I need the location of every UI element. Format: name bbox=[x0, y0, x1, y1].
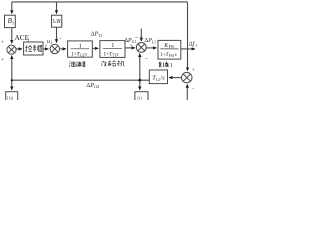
wire branch up from tie-line into SJ1 bbox=[11, 56, 13, 81]
wire 1/R1 down to SJ2a bbox=[56, 27, 58, 42]
summing junction SJ1 bbox=[7, 45, 16, 54]
wire SJ2a to governor bbox=[60, 48, 66, 50]
wire turbine to summing junction SJ2 bbox=[125, 47, 135, 49]
svg-text:+: + bbox=[130, 44, 133, 49]
wire SJ2 to power system block KPS1 bbox=[146, 47, 156, 49]
svg-text:1: 1 bbox=[195, 43, 197, 48]
svg-text:1: 1 bbox=[50, 40, 52, 45]
svg-text:+: + bbox=[1, 39, 4, 45]
label governor (tiao su qi) bbox=[69, 61, 85, 66]
wire drop into 1/R1 bbox=[56, 2, 58, 14]
summing junction SJ3 bbox=[182, 72, 192, 82]
summing junction SJ2 bbox=[136, 43, 146, 53]
svg-text:1: 1 bbox=[12, 20, 14, 25]
svg-text:L1: L1 bbox=[152, 40, 156, 44]
node junction dot on tie-line at x=12 bbox=[11, 79, 13, 81]
char 制 bbox=[33, 45, 38, 52]
char 器 bbox=[40, 45, 42, 51]
block bottom-left (area 2, clipped) bbox=[6, 92, 18, 103]
char 汽 bbox=[101, 61, 106, 66]
char 调 bbox=[69, 62, 75, 67]
wire df1 down to summing junction SJ3 bbox=[187, 49, 189, 71]
block 1/R1 bbox=[52, 15, 63, 27]
wire branch down from tie-line into bottom-right block bbox=[139, 80, 141, 90]
svg-text:1: 1 bbox=[79, 42, 82, 49]
svg-text:s: s bbox=[175, 52, 177, 58]
char 器 bbox=[83, 62, 85, 67]
block bottom-right (area 2, clipped) bbox=[135, 92, 148, 103]
wire tie-line dPtie from T12/s to left bbox=[12, 79, 150, 81]
block B1 bbox=[5, 15, 16, 27]
wire load input dP_L1 into SJ2 bbox=[140, 29, 142, 42]
wire KPS1 output df1 bbox=[181, 48, 195, 50]
svg-text:12: 12 bbox=[156, 77, 160, 82]
char 控 bbox=[25, 45, 32, 52]
char 区 bbox=[159, 62, 161, 67]
svg-text:+: + bbox=[1, 57, 4, 63]
svg-text:−: − bbox=[191, 86, 195, 92]
wire controller to summing junction SJ2a bbox=[43, 48, 48, 50]
node junction dot on tie-line at x=140 bbox=[138, 79, 141, 82]
wire drop into B1 bbox=[11, 2, 13, 14]
wire governor to turbine bbox=[92, 47, 98, 49]
wire df1 riser up to top feedback line bbox=[187, 2, 189, 49]
svg-text:T1: T1 bbox=[98, 34, 102, 38]
svg-text:+: + bbox=[192, 67, 195, 73]
block turbine transfer function bbox=[100, 41, 125, 58]
wire B1 to summing junction SJ1 (ACE1) bbox=[11, 28, 13, 44]
wire top feedback line bbox=[12, 1, 188, 3]
svg-text:s: s bbox=[116, 51, 118, 57]
wire area-2 df2 input from bottom into SJ3 bbox=[186, 84, 188, 100]
block governor transfer function bbox=[68, 41, 93, 58]
char 轮 bbox=[108, 61, 115, 66]
svg-text:s: s bbox=[85, 51, 87, 57]
block T12/s bbox=[149, 70, 167, 84]
wire SJ3 to T12/s block bbox=[169, 77, 182, 79]
svg-text:1: 1 bbox=[111, 42, 114, 49]
label turbine (qi lun ji) bbox=[101, 61, 124, 66]
svg-text:−: − bbox=[145, 56, 149, 62]
block controller bbox=[24, 42, 43, 55]
char 速 bbox=[76, 61, 81, 66]
svg-text:1: 1 bbox=[170, 63, 173, 69]
char 域 bbox=[163, 62, 169, 67]
block power system KPS1 bbox=[158, 40, 181, 59]
svg-text:t12: t12 bbox=[94, 84, 99, 89]
wire branch up from tie-line into SJ2 bbox=[139, 54, 141, 81]
char 机 bbox=[117, 61, 124, 66]
wire branch down from tie-line into bottom-left block bbox=[11, 80, 13, 90]
svg-text:−: − bbox=[135, 35, 139, 41]
label area 1 (qu yu 1) bbox=[159, 62, 168, 67]
summing junction SJ2a bbox=[50, 44, 59, 53]
wire SJ1 to controller bbox=[16, 48, 22, 50]
svg-text:1: 1 bbox=[61, 21, 63, 26]
svg-text:−: − bbox=[58, 37, 62, 43]
